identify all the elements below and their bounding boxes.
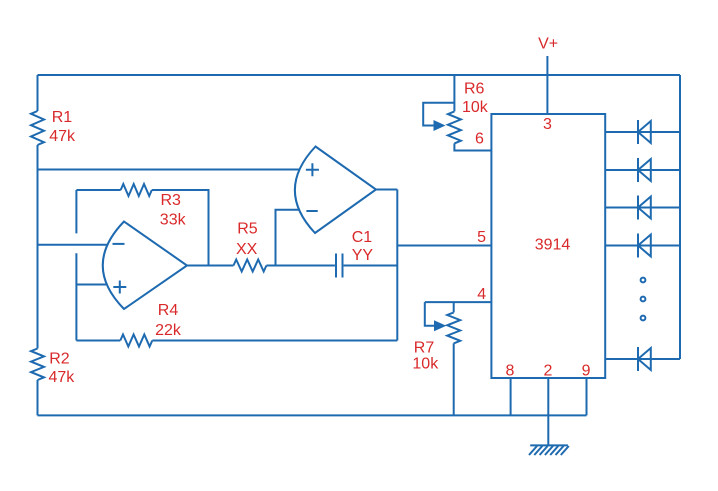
- svg-text:R7: R7: [414, 339, 435, 356]
- svg-text:R6: R6: [464, 81, 485, 98]
- svg-text:YY: YY: [352, 247, 374, 264]
- svg-text:47k: 47k: [49, 128, 76, 145]
- svg-text:C1: C1: [352, 229, 373, 246]
- svg-text:R3: R3: [161, 192, 182, 209]
- svg-text:22k: 22k: [155, 322, 182, 339]
- svg-text:33k: 33k: [160, 212, 187, 229]
- svg-text:47k: 47k: [49, 369, 76, 386]
- svg-text:6: 6: [475, 130, 484, 147]
- svg-text:10k: 10k: [412, 356, 439, 373]
- svg-text:3: 3: [543, 116, 552, 133]
- svg-text:10k: 10k: [462, 99, 489, 116]
- svg-text:9: 9: [582, 362, 591, 379]
- svg-text:3914: 3914: [535, 237, 571, 254]
- svg-text:8: 8: [506, 362, 515, 379]
- svg-text:R4: R4: [158, 302, 179, 319]
- svg-text:R1: R1: [52, 109, 73, 126]
- svg-text:R2: R2: [49, 351, 70, 368]
- svg-text:2: 2: [543, 362, 552, 379]
- svg-text:V+: V+: [538, 36, 558, 53]
- svg-text:R5: R5: [237, 220, 258, 237]
- svg-text:XX: XX: [236, 241, 258, 258]
- svg-text:4: 4: [477, 286, 486, 303]
- svg-text:5: 5: [477, 229, 486, 246]
